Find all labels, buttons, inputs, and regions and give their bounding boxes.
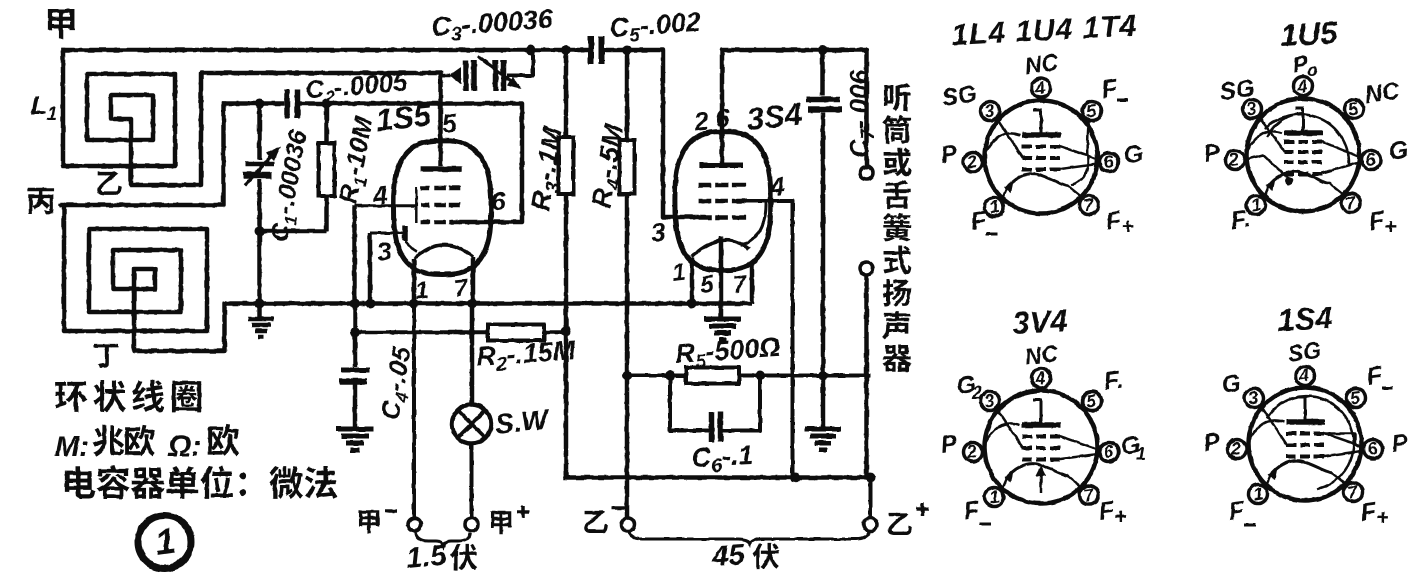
label F- t4 <box>1365 361 1393 391</box>
ground C4 <box>336 429 374 450</box>
label SG t2 <box>1218 74 1256 106</box>
figure number 1 <box>138 516 191 569</box>
svg-text:1S4: 1S4 <box>1277 300 1334 338</box>
svg-text:C7-.006: C7-.006 <box>844 69 878 158</box>
tube 3S4 filament arc <box>692 240 750 257</box>
ground 3S4 <box>704 319 741 340</box>
label 丁 <box>94 344 119 368</box>
capacitor C7 <box>806 100 842 110</box>
svg-text:G: G <box>1387 136 1410 166</box>
inductor lower loop coil <box>61 104 225 352</box>
svg-text:SG: SG <box>940 80 978 112</box>
wire 甲- lead <box>412 304 416 519</box>
label R2-.15M <box>475 335 577 377</box>
wire 3S4 plate rail <box>722 50 867 167</box>
capacitor C2 <box>287 90 298 119</box>
label C2-.0005 <box>304 66 410 109</box>
wire 1S5 diode-filament tick <box>406 242 416 251</box>
wire 1S5 pin1 <box>412 259 417 304</box>
tube 3S4 plate bar <box>699 162 743 168</box>
label 乙 <box>97 172 121 195</box>
tube U1 1S5 envelope <box>394 141 492 275</box>
label pin 4 <box>370 180 389 212</box>
svg-text:1.5: 1.5 <box>405 540 449 575</box>
label F+ t1 <box>1104 206 1134 239</box>
tube 3S4 filament-pin4 curve <box>741 201 766 246</box>
svg-text:S.W: S.W <box>493 403 551 440</box>
label F. t2 <box>1229 205 1252 235</box>
wire grid line rail3 right + 1S5 pin6 <box>300 104 522 223</box>
svg-text:+: + <box>1121 214 1134 239</box>
svg-text:o: o <box>1307 60 1318 80</box>
wire C7 top <box>820 50 825 96</box>
tube 1S5 plate bar <box>421 166 463 172</box>
wire top rail right of C5 to 3S4 grid corner <box>605 50 697 217</box>
label R1-10M <box>332 113 382 207</box>
tube socket 1S4 <box>1228 365 1383 505</box>
label F- t1 <box>1100 74 1128 104</box>
svg-text:F.: F. <box>1229 205 1252 235</box>
label C6-.1 <box>691 440 754 478</box>
label P t1 <box>939 140 960 169</box>
label C3-.00036 <box>430 4 555 47</box>
svg-text:+: + <box>1376 505 1389 530</box>
label C4-.05 <box>374 344 420 423</box>
wire R2 left <box>355 330 488 334</box>
svg-text:2: 2 <box>971 383 982 403</box>
node C7 top junction <box>818 45 828 55</box>
label F+ t2 <box>1367 206 1397 239</box>
label 甲 <box>48 9 75 39</box>
label S.W <box>493 403 551 440</box>
label pin 3 <box>375 236 393 267</box>
label pin 6 <box>489 186 507 217</box>
wire R2 right <box>544 330 566 334</box>
label R5-500 <box>674 332 781 374</box>
label 甲+ terminal <box>491 506 529 534</box>
node pin1 rail junction <box>409 299 419 309</box>
wire C1 top <box>257 104 262 161</box>
wire 1S5 pin3 lead <box>370 233 403 304</box>
terminal 甲- circle <box>408 518 421 531</box>
label pin 1 <box>414 277 430 305</box>
resistor R2 <box>488 325 544 341</box>
wire 1S5 pin4 <box>355 206 417 304</box>
tube socket 1U5 <box>1226 76 1381 216</box>
svg-text:NC: NC <box>1023 49 1060 79</box>
wire lamp top <box>470 304 475 406</box>
tube 1S5 diode plate bar <box>402 226 408 241</box>
tube socket 3V4 <box>964 368 1119 508</box>
label 乙- terminal <box>584 508 625 533</box>
node R1 top junction <box>322 99 332 109</box>
svg-text:3V4: 3V4 <box>1012 303 1069 341</box>
wire C4 ground stub <box>353 384 358 428</box>
node C1 top junction <box>255 99 265 109</box>
ground <box>248 319 274 337</box>
tube 1S5 filament arc <box>414 245 473 259</box>
node R3 top junction <box>561 45 571 55</box>
terminal 乙- circle <box>622 518 635 531</box>
resistor R5 <box>686 368 739 384</box>
label pin 7 <box>453 275 471 303</box>
label title 3V4 <box>1012 303 1069 341</box>
svg-text:1S5: 1S5 <box>374 97 433 138</box>
brace 1.5V <box>415 532 470 546</box>
node pin3 rail junction <box>366 299 376 309</box>
label L1 <box>31 90 57 124</box>
wire ground stub right <box>821 376 826 429</box>
label R3-.1M <box>525 125 573 214</box>
label 1S5 <box>374 97 433 138</box>
svg-text:1U5: 1U5 <box>1280 15 1339 53</box>
label F+ t3 <box>1097 496 1127 529</box>
capacitor C6 <box>712 412 721 442</box>
node R4-R5 junction <box>622 371 632 381</box>
tube socket 1L4 1U4 1T4 <box>964 78 1119 218</box>
wire C1 bottom <box>257 179 262 304</box>
inductor L1 top loop antenna coil <box>63 50 441 185</box>
label NC t1 <box>1023 49 1060 79</box>
label R4-.5M <box>586 122 634 211</box>
wire ground stub <box>257 304 262 319</box>
wire grid line rail3 left <box>224 101 283 106</box>
label F+ t4 <box>1359 497 1389 530</box>
tube 1S5 grid rail <box>415 187 418 223</box>
label P t4 left <box>1202 428 1223 457</box>
label 1.5伏 <box>405 540 477 575</box>
node 3S4 pin1 junction <box>687 299 697 309</box>
label 3S4 pin 5 <box>699 271 716 299</box>
node R5 right junction <box>755 371 765 381</box>
svg-text:3S4: 3S4 <box>745 96 804 137</box>
svg-text:SG: SG <box>1218 74 1256 106</box>
node C3 junction <box>526 45 536 55</box>
label P t2 <box>1202 139 1223 168</box>
lamp S.W switch <box>452 405 491 444</box>
label NC t3 <box>1023 340 1060 370</box>
label SG t1 <box>940 80 978 112</box>
label speaker text <box>883 83 912 372</box>
label pin 5 <box>440 108 458 139</box>
node B rail left junction <box>790 473 800 483</box>
label 3S4 pin 7 <box>732 271 750 299</box>
svg-text:NC: NC <box>1023 340 1060 370</box>
resistor R1 <box>319 104 335 232</box>
wire C7 bottom <box>821 113 826 376</box>
wire C4 branch top <box>353 304 358 368</box>
capacitor C3 trimmer <box>441 50 534 91</box>
label 3S4 pin 3 <box>649 217 667 248</box>
label title 1L4 1U4 1T4 <box>951 9 1139 52</box>
wire R5 line left <box>627 374 686 378</box>
node pin7 rail junction <box>467 299 477 309</box>
wire 1S5 pin5 top <box>438 73 443 166</box>
label Omega:欧 <box>167 424 239 463</box>
wire R5 line right <box>739 374 870 378</box>
node C4-R2 junction <box>350 327 360 337</box>
capacitor C4 <box>339 370 370 382</box>
capacitor C5 <box>591 36 602 64</box>
wire 甲 top rail <box>63 48 586 53</box>
label 3S4 pin 2 <box>691 106 710 138</box>
label M:兆欧 <box>55 425 155 463</box>
svg-text:G: G <box>1220 370 1242 399</box>
wire 乙+ lead <box>869 478 873 519</box>
label G t4 <box>1220 370 1242 399</box>
tube 1S5 grid dashes <box>421 188 461 222</box>
label Po t2 <box>1291 50 1318 80</box>
svg-text:M:: M: <box>55 431 89 463</box>
svg-text:+: + <box>1114 504 1127 529</box>
label SG t4 <box>1286 337 1323 367</box>
label 环状线圈 <box>55 380 201 412</box>
label G t1 <box>1122 140 1145 170</box>
wire lamp bottom <box>470 444 474 519</box>
svg-text:SG: SG <box>1286 337 1323 367</box>
label 3S4 pin 6 <box>713 103 731 134</box>
svg-text:F.: F. <box>1102 366 1125 396</box>
capacitor C1 variable with arrow <box>243 146 281 184</box>
svg-text:1: 1 <box>671 259 687 287</box>
wire 1S5 pin7 <box>471 257 476 304</box>
label 丙 <box>28 188 54 214</box>
node pin4 rail junction <box>350 299 360 309</box>
label C1-.00036 <box>265 127 316 245</box>
terminal speaker bottom <box>860 262 873 275</box>
label P t4 right <box>1390 429 1411 458</box>
svg-text:G: G <box>1122 140 1145 170</box>
node R4 top junction <box>622 45 632 55</box>
label 电容器单位微法 <box>65 466 337 500</box>
label NC t2 <box>1363 77 1402 109</box>
tube 3S4 grid dashes <box>699 185 747 218</box>
label F. t3 <box>1102 366 1125 396</box>
ground right <box>805 429 841 450</box>
label C5-.002 <box>608 7 702 48</box>
terminal speaker top <box>860 167 873 180</box>
resistor R3 <box>559 50 574 478</box>
terminal 甲+ circle <box>465 518 478 531</box>
label title 1U5 <box>1280 15 1339 53</box>
terminal 乙+ circle <box>864 518 877 531</box>
label F- t1b <box>969 206 998 236</box>
label G1 t3 <box>1119 431 1146 464</box>
label P t3 <box>939 430 960 459</box>
label 45伏 <box>710 539 779 573</box>
label 3S4 pin 4 <box>767 171 786 203</box>
wire 3S4 pin1 <box>690 258 695 304</box>
label title 1S4 <box>1277 300 1334 338</box>
label F- t3 <box>962 496 991 526</box>
label G t2 <box>1387 136 1410 166</box>
node C1-R1 junction <box>255 226 265 236</box>
wire speaker return <box>864 275 869 478</box>
node C1 ground junction <box>255 299 265 309</box>
svg-text:45: 45 <box>710 539 746 573</box>
wire C1-R1 bottom link <box>260 229 327 234</box>
wire 3S4 pin7 <box>750 264 755 304</box>
node R2-R3 junction <box>561 327 571 337</box>
label 3S4 <box>745 96 804 137</box>
wire 3S4 pin5 center tap <box>719 236 724 318</box>
label F- t4b <box>1227 496 1256 526</box>
svg-text:NC: NC <box>1363 77 1402 109</box>
node B rail right junction <box>866 473 876 483</box>
wire 3S4 pin4 <box>746 201 793 478</box>
wire filament rail <box>225 301 753 306</box>
svg-text:+: + <box>1384 214 1397 239</box>
brace 45V <box>629 531 869 544</box>
label 乙+ terminal <box>888 503 929 535</box>
label 甲- terminal <box>359 510 397 533</box>
svg-text:1: 1 <box>1136 444 1146 464</box>
svg-text:Ω:: Ω: <box>167 430 201 463</box>
node C7 line junction <box>818 371 828 381</box>
label G2 t3 <box>955 371 982 403</box>
label C7-.006 <box>844 69 878 158</box>
wire C6 bracket <box>670 376 760 431</box>
label 3S4 pin 1 <box>671 259 687 287</box>
tube U2 3S4 envelope <box>675 132 771 271</box>
resistor R4 <box>620 50 635 518</box>
node R5 left junction <box>665 371 675 381</box>
wire B- rail <box>566 475 871 480</box>
